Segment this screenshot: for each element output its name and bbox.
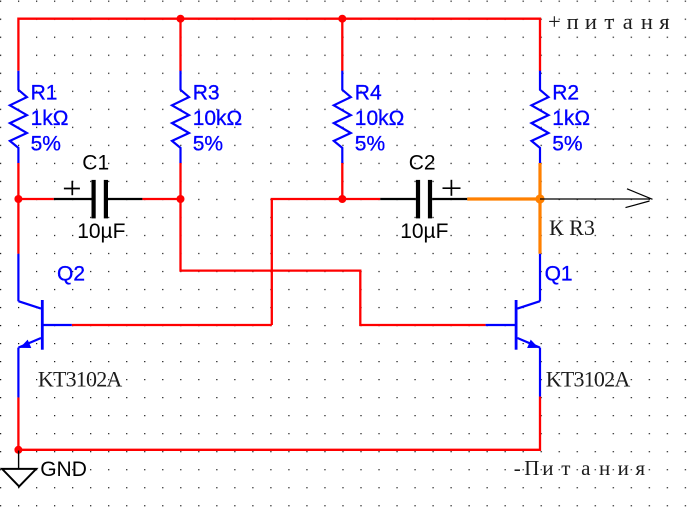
wire top rail [18,19,540,71]
svg-text:C2: C2 [409,151,436,174]
junction node C1 right / R3 [177,195,185,203]
wire left rail to ground [17,397,19,449]
resistor R1 [10,71,27,163]
transistor Q1 [486,254,540,397]
svg-text:Q2: Q2 [57,262,85,285]
svg-text:GND: GND [40,458,87,481]
wire bottom rail [18,397,540,450]
svg-text:KT3102A: KT3102A [546,366,631,391]
junction top rail / R3 [177,15,185,23]
svg-text:5%: 5% [193,132,223,155]
wire C1 right [142,198,180,200]
transistor Q2 [18,254,71,398]
svg-text:10µF: 10µF [400,220,448,243]
capacitor C2 [380,180,467,219]
wire C2 left run [272,199,380,325]
junction top rail / R4 [338,15,346,23]
svg-text:5%: 5% [552,132,582,155]
svg-text:R3: R3 [193,82,220,105]
capacitor C1 [54,180,143,219]
svg-text:1kΩ: 1kΩ [552,107,590,130]
svg-text:KT3102A: KT3102A [38,366,123,391]
junction node GND [14,446,22,454]
svg-text:R2: R2 [552,82,579,105]
svg-text:1kΩ: 1kΩ [31,107,69,130]
svg-text:R1: R1 [31,82,58,105]
svg-text:+питаня: +питаня [548,9,670,34]
output arrow [540,189,653,208]
wire R4 bottom to node [341,163,343,199]
wire C1 left [18,198,53,200]
resistor R2 [532,71,549,163]
net out orange wire vertical [538,163,541,254]
svg-text:10kΩ: 10kΩ [193,107,243,130]
junction node C2 left / R4 [338,195,346,203]
node output net (orange) [535,194,544,203]
svg-text:10kΩ: 10kΩ [355,107,405,130]
wire R3 bottom to node [179,163,181,199]
wire R1 bottom to node [17,163,19,199]
svg-text:5%: 5% [31,132,61,155]
junction node C1 left / R1 [14,195,22,203]
svg-text:Q1: Q1 [545,262,573,285]
svg-text:10µF: 10µF [77,220,125,243]
wire cross C1 to Q1 base [181,199,486,325]
wire R3 top [179,19,181,71]
wire R4 top [341,19,343,71]
ground symbol [2,451,36,487]
wire Q2 base run [72,324,272,326]
svg-text:C1: C1 [82,151,109,174]
wire left collector red [17,199,19,254]
net out orange wire horizontal [467,197,540,200]
resistor R3 [172,71,189,163]
resistor R4 [334,71,351,163]
svg-text:5%: 5% [355,132,385,155]
svg-text:К R3: К R3 [549,215,595,240]
svg-text:R4: R4 [355,82,382,105]
